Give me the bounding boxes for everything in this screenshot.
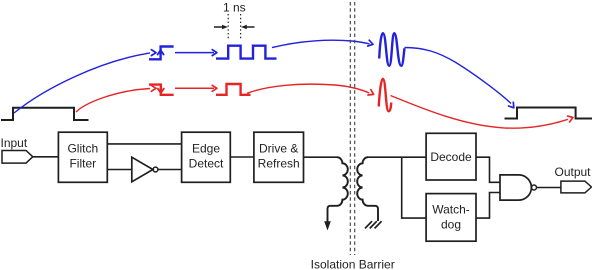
glitch filter block <box>58 132 107 182</box>
svg-text:Detect: Detect <box>189 157 224 171</box>
drive & refresh block <box>254 132 304 182</box>
edge detect block <box>182 132 231 182</box>
transformer T1 primary <box>328 157 348 222</box>
transformer T1 secondary <box>357 157 378 221</box>
svg-text:Glitch: Glitch <box>67 142 98 156</box>
wire: red curve to output edge <box>391 96 569 129</box>
wire: transformer secondary to decode <box>367 156 426 158</box>
input waveform <box>1 108 89 120</box>
svg-text:Isolation Barrier: Isolation Barrier <box>311 258 395 270</box>
output port <box>561 181 592 193</box>
wire: red curve across barrier <box>247 84 369 93</box>
output waveform <box>505 108 592 119</box>
watchdog block <box>426 194 476 242</box>
isolation barrier dashed lines <box>350 2 354 255</box>
wire: blue curve to output edge <box>405 48 512 104</box>
red 1ns pulse <box>216 84 251 95</box>
inverter U1 <box>132 157 153 182</box>
svg-text:Decode: Decode <box>430 150 472 164</box>
blue 1ns double pulse <box>216 46 277 59</box>
blue rising-edge pulse <box>149 47 174 60</box>
blue arrow <box>175 52 214 54</box>
ground arrow (primary side) <box>324 221 331 230</box>
wire: watchdog to gate <box>476 193 500 219</box>
blue ringing waveform <box>379 33 404 66</box>
svg-text:dog: dog <box>441 218 461 232</box>
decode block <box>426 133 476 180</box>
wire: edge detect to drive refresh <box>230 156 254 158</box>
svg-text:Drive &: Drive & <box>259 142 298 156</box>
svg-text:Output: Output <box>554 165 591 179</box>
svg-text:Filter: Filter <box>69 157 96 171</box>
svg-text:Watch-: Watch- <box>432 203 470 217</box>
input port <box>2 151 33 164</box>
wire: inverter to edge detect <box>158 169 182 171</box>
wire: red curve input edge to pulse <box>76 89 150 113</box>
chassis ground (secondary side) <box>365 221 382 228</box>
red arrow <box>175 87 214 89</box>
svg-text:Refresh: Refresh <box>258 157 300 171</box>
wire: blue curve across barrier <box>272 40 370 47</box>
red falling-edge pulse <box>149 85 174 95</box>
wire: glitch filter to edge detect (top) <box>107 143 181 145</box>
wire: input port to glitch filter <box>33 156 59 158</box>
wire: glitch filter to inverter <box>107 169 132 171</box>
svg-text:Input: Input <box>1 136 28 150</box>
wire: drive refresh to transformer primary <box>304 156 338 158</box>
svg-text:Edge: Edge <box>192 142 220 156</box>
NAND gate <box>500 175 531 200</box>
wire: decode to gate <box>476 157 500 182</box>
red ringing waveform <box>379 79 392 112</box>
wire: gate to output port <box>537 187 561 189</box>
wire: branch to watchdog <box>402 157 426 218</box>
1 ns dimension marker <box>214 14 255 40</box>
svg-text:1 ns: 1 ns <box>223 1 246 15</box>
wire: blue curve input edge to pulse <box>14 53 150 113</box>
